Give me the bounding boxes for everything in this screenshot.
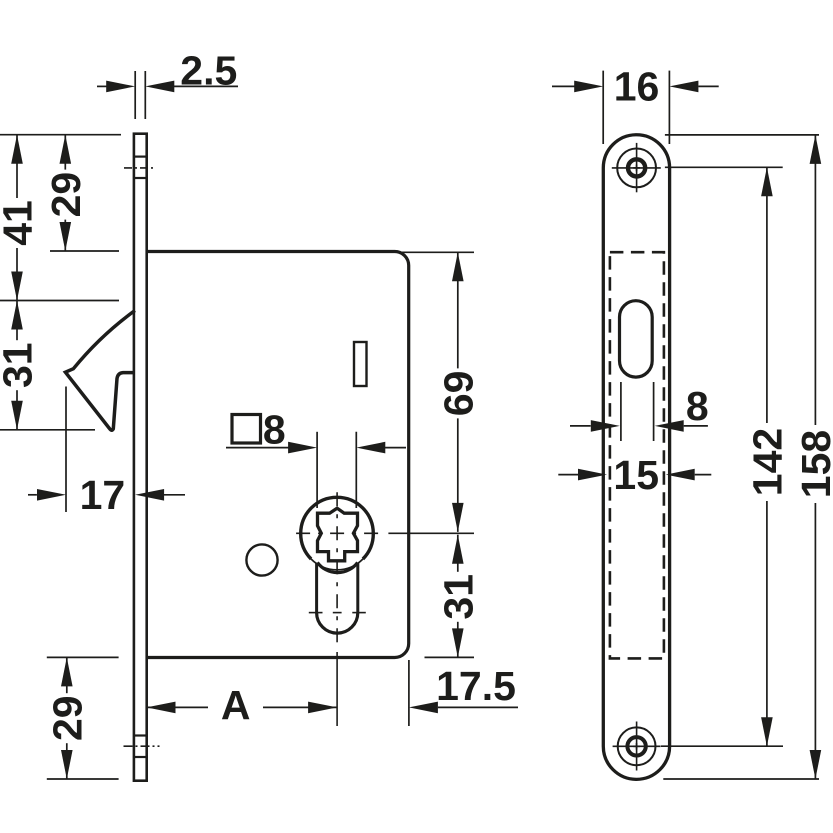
slot opening in lock case <box>354 342 367 386</box>
svg-text:17.5: 17.5 <box>436 663 516 709</box>
extension line faceplate bottom <box>47 778 119 780</box>
svg-text:142: 142 <box>744 428 790 496</box>
svg-text:69: 69 <box>435 371 481 417</box>
spindle vertical centreline <box>336 491 338 726</box>
hook bolt <box>65 311 134 431</box>
spindle horizontal centreline <box>294 532 379 534</box>
spindle hub circle <box>301 497 374 570</box>
top screw hole <box>612 143 661 192</box>
faceplate side view (strip) <box>134 134 147 781</box>
extension line case bottom right <box>425 656 475 658</box>
svg-text:8: 8 <box>686 383 709 429</box>
extension line hook tip <box>0 429 95 431</box>
bottom screw hole <box>613 722 661 771</box>
oval cutout in faceplate <box>620 301 653 377</box>
svg-text:41: 41 <box>0 200 41 246</box>
svg-text:2.5: 2.5 <box>180 48 237 94</box>
svg-text:31: 31 <box>0 342 41 388</box>
dimension 17.5 <box>409 660 518 726</box>
dimension 31 (right) <box>435 535 481 658</box>
dimension 31 (left) <box>0 301 41 430</box>
dimension 29 (bottom) <box>44 657 90 779</box>
extension line bottom screw centre <box>661 745 783 747</box>
square symbol for 8 mm spindle <box>232 407 286 453</box>
dimension 8 (oval width) <box>570 382 709 441</box>
extension line top screw centre <box>665 166 783 168</box>
dimension 142 <box>744 167 790 746</box>
dimension 17 (hook projection) <box>28 387 185 519</box>
extension line top of faceplate <box>0 134 121 136</box>
dimension 8 (spindle square, left view) <box>226 432 406 508</box>
dimension 41 <box>0 135 41 301</box>
dimension 29 (top) <box>43 135 89 251</box>
svg-text:29: 29 <box>43 172 89 218</box>
profile cylinder body <box>317 563 358 634</box>
extension line spindle centre right <box>388 532 474 534</box>
faceplate bottom screw hole (side view) <box>124 736 160 758</box>
extension line faceplate top right <box>665 134 819 136</box>
svg-text:31: 31 <box>435 574 481 620</box>
extension line faceplate bottom right <box>663 778 819 780</box>
extension line hook top <box>0 300 119 302</box>
dimension A (backset) <box>147 682 338 728</box>
screw hole in lock case <box>246 544 277 575</box>
extension line case top left <box>50 250 119 252</box>
lock case hidden outline (dashed) <box>610 252 664 658</box>
svg-text:17: 17 <box>80 472 126 518</box>
faceplate top screw hole (side view) <box>124 157 155 178</box>
svg-text:15: 15 <box>613 452 659 498</box>
faceplate front view <box>603 135 669 780</box>
extension line case top right <box>401 251 474 253</box>
square spindle follower 8 mm <box>318 508 358 561</box>
svg-text:158: 158 <box>793 430 833 498</box>
dimension 15 (case width) <box>558 452 711 498</box>
dimension 2.5 (faceplate thickness) <box>97 48 238 120</box>
dimension 16 (faceplate width) <box>552 63 719 144</box>
extension line case bottom left <box>47 656 119 658</box>
svg-text:29: 29 <box>44 695 90 741</box>
dimension 158 <box>793 135 833 779</box>
svg-text:8: 8 <box>263 407 286 453</box>
extension line spindle centre bottom <box>336 725 338 727</box>
cylinder arc centre ticks <box>309 612 366 614</box>
svg-text:16: 16 <box>614 63 660 109</box>
lock case body <box>147 252 409 658</box>
svg-text:A: A <box>221 682 251 728</box>
dimension 69 <box>435 252 481 532</box>
